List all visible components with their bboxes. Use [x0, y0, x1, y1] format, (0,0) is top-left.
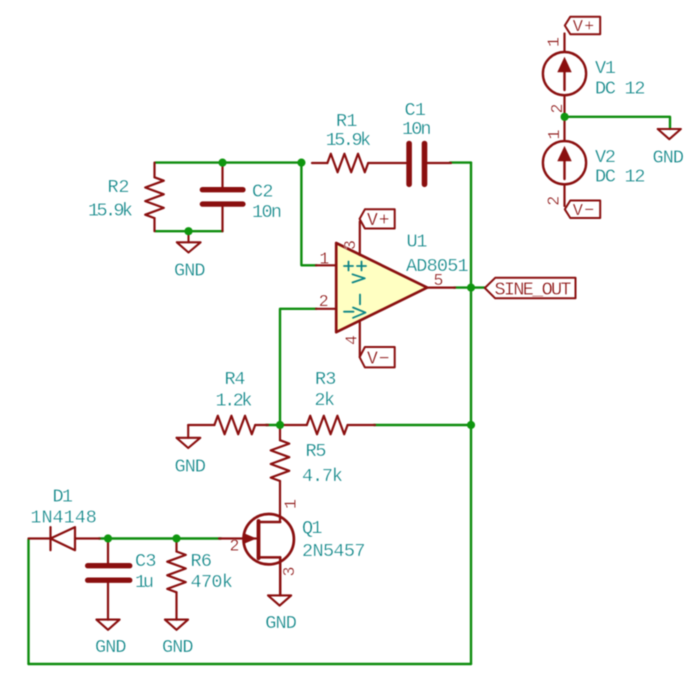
- svg-text:R6: R6: [191, 551, 213, 572]
- svg-text:R3: R3: [315, 369, 336, 390]
- voltage source V1: [543, 34, 586, 117]
- ground G1 below R2/C2: [177, 231, 201, 252]
- svg-text:SINE_OUT: SINE_OUT: [495, 279, 572, 300]
- svg-text:10n: 10n: [402, 119, 432, 140]
- svg-text:470k: 470k: [191, 572, 234, 593]
- wire C1 right to right bus: [450, 161, 471, 163]
- wire op-amp output to SINE_OUT: [454, 286, 485, 288]
- power flag V- below U1 pin 4: [360, 347, 395, 367]
- svg-text:V−: V−: [367, 349, 390, 369]
- U1 V- pin name rotated: [353, 295, 366, 318]
- svg-text:1u: 1u: [135, 572, 154, 593]
- svg-text:GND: GND: [653, 148, 685, 169]
- ground G6 top right: [658, 129, 681, 139]
- svg-text:1: 1: [282, 499, 301, 509]
- op-amp U1 AD8051: [316, 222, 455, 357]
- wire R2 bottom to C2 bottom: [156, 230, 223, 232]
- svg-text:1: 1: [545, 37, 564, 47]
- svg-text:4.7k: 4.7k: [302, 466, 343, 487]
- svg-text:2N5457: 2N5457: [302, 541, 366, 562]
- ground G5 below R6: [165, 620, 188, 630]
- wire top row R2/C2 to R1 node: [156, 161, 302, 163]
- wire left drop from D1: [27, 540, 29, 665]
- svg-text:GND: GND: [174, 260, 206, 281]
- wire right bus vertical: [470, 163, 472, 664]
- junction node V1/V2: [561, 113, 569, 121]
- svg-text:2k: 2k: [314, 390, 335, 411]
- ground G2 below R4: [177, 425, 201, 448]
- svg-text:2: 2: [545, 196, 564, 206]
- svg-text:C1: C1: [405, 100, 427, 121]
- svg-text:V+: V+: [573, 18, 595, 37]
- svg-text:V+: V+: [367, 211, 390, 231]
- svg-text:Q1: Q1: [302, 518, 323, 539]
- wire V1/V2 midpoint to GND: [565, 117, 670, 129]
- svg-text:GND: GND: [95, 637, 127, 658]
- svg-text:15.9k: 15.9k: [326, 130, 372, 151]
- svg-text:2: 2: [548, 104, 567, 114]
- svg-text:DC 12: DC 12: [595, 166, 646, 187]
- voltage source V2: [543, 117, 586, 206]
- svg-text:U1: U1: [407, 232, 428, 253]
- junction node output: [467, 284, 475, 292]
- capacitor C1: [409, 144, 451, 185]
- wire R4 to node: [266, 424, 280, 426]
- wire diode anode to Q1 gate: [99, 537, 221, 539]
- junction node top left: [218, 159, 226, 167]
- svg-text:GND: GND: [175, 457, 207, 478]
- svg-text:1.2k: 1.2k: [216, 390, 253, 411]
- ground G3 below Q1: [268, 595, 291, 605]
- svg-text:1N4148: 1N4148: [30, 508, 97, 529]
- svg-text:3: 3: [280, 567, 299, 577]
- label SINE_OUT: [485, 278, 576, 299]
- diode D1: [29, 527, 100, 550]
- svg-text:D1: D1: [53, 487, 74, 508]
- svg-text:15.9k: 15.9k: [88, 200, 133, 221]
- ground G4 below C3: [96, 620, 119, 630]
- U1 V+ pin name rotated: [353, 262, 367, 283]
- power flag V+ above U1 pin 3: [360, 209, 395, 228]
- svg-text:V2: V2: [595, 147, 616, 168]
- capacitor C2: [202, 163, 243, 232]
- svg-text:1: 1: [545, 130, 564, 140]
- svg-text:V1: V1: [595, 58, 616, 79]
- resistor R6: [167, 539, 186, 620]
- junction node R6 top: [172, 534, 180, 542]
- svg-text:2: 2: [319, 292, 329, 311]
- svg-text:C2: C2: [252, 181, 274, 202]
- svg-text:1: 1: [319, 249, 329, 268]
- svg-text:3: 3: [341, 240, 360, 250]
- wire R3 right to bus: [374, 424, 471, 426]
- wire op-amp pin2 to feedback node: [280, 309, 317, 425]
- junction node R3 right: [467, 421, 475, 429]
- resistor R5: [271, 425, 290, 522]
- svg-text:GND: GND: [265, 613, 297, 634]
- U1 plus input mark: [344, 262, 353, 271]
- svg-text:GND: GND: [162, 637, 194, 658]
- wire node to op-amp pin1: [301, 163, 316, 266]
- power flag V+ above V1: [565, 17, 600, 35]
- wire bottom run: [29, 663, 472, 665]
- svg-text:4: 4: [343, 335, 362, 345]
- svg-text:10n: 10n: [252, 202, 282, 223]
- svg-text:2: 2: [230, 537, 240, 556]
- resistor R3: [283, 416, 375, 435]
- transistor Q1 2N5457: [219, 514, 294, 595]
- resistor R2: [145, 163, 164, 232]
- svg-text:R5: R5: [306, 441, 327, 462]
- svg-text:R2: R2: [108, 177, 130, 198]
- capacitor C3: [88, 539, 130, 620]
- junction node feedback: [276, 421, 284, 429]
- svg-text:V−: V−: [573, 202, 595, 221]
- power flag V- below V2: [565, 201, 600, 219]
- junction node R2/C2 ground: [184, 227, 192, 235]
- junction node C3 top: [104, 534, 112, 542]
- U1 minus input mark: [344, 311, 354, 313]
- junction node R1 left: [297, 159, 305, 167]
- svg-text:C3: C3: [135, 551, 157, 572]
- svg-text:DC 12: DC 12: [595, 79, 646, 100]
- svg-text:AD8051: AD8051: [406, 256, 469, 277]
- resistor R4: [188, 416, 268, 435]
- svg-text:R4: R4: [225, 369, 246, 390]
- resistor R1: [312, 154, 406, 173]
